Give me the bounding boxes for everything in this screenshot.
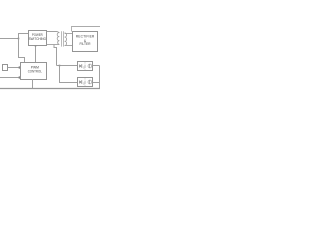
node A junction dot on input wire xyxy=(18,38,20,40)
photo transistor Q1 circle xyxy=(88,64,92,68)
wire branch up into power switching xyxy=(19,34,29,39)
LED diode D1 xyxy=(79,64,81,67)
block POWER SWITCHING xyxy=(29,31,47,46)
wire PWM bottom to return rail xyxy=(32,79,34,89)
wire sense box to PWM left xyxy=(8,67,21,69)
wire DC output from rectifier top to right edge xyxy=(72,27,101,32)
block line sense box xyxy=(3,65,8,71)
transformer T1 core xyxy=(61,31,63,46)
wire feedback to upper opto xyxy=(57,65,78,67)
wire bottom return rail xyxy=(0,88,100,90)
optocoupler U2 box xyxy=(78,62,93,71)
transformer T1 secondary winding xyxy=(65,33,67,46)
node junction dot on feedback wire xyxy=(59,65,61,67)
wire lower opto right to output bus xyxy=(93,82,100,84)
wire AC input xyxy=(0,38,19,40)
light arrows xyxy=(83,81,86,85)
transformer T1 primary winding xyxy=(57,33,59,45)
optical divider xyxy=(84,62,86,69)
node terminal tick on sense wire xyxy=(19,66,20,68)
wire branch from input down and over to PWM top xyxy=(19,39,25,63)
svg-text:FILTER: FILTER xyxy=(79,42,91,46)
photo transistor Q2 circle xyxy=(88,80,92,84)
wire transformer secondary top lead xyxy=(65,33,73,35)
optocoupler U3 box xyxy=(78,78,93,87)
wire aux feedback tap from primary bottom lead xyxy=(54,45,57,66)
optical divider xyxy=(84,78,86,85)
LED diode D3 xyxy=(79,80,81,83)
svg-text:CONTROL: CONTROL xyxy=(28,69,42,73)
wire upper opto right to output bus xyxy=(93,65,100,67)
wire transformer primary bottom lead xyxy=(47,44,60,46)
node junction dot at power switching bottom xyxy=(35,45,37,47)
block PWM CONTROL xyxy=(21,63,47,80)
block RECTIFIER & FILTER xyxy=(73,32,98,52)
wire right output bus vertical xyxy=(99,66,101,89)
wire transformer primary top lead xyxy=(47,32,60,33)
wire junction down to lower opto xyxy=(60,66,78,83)
wire power switching bottom to PWM control top xyxy=(35,46,37,63)
wire second input to PWM left lower xyxy=(0,77,21,79)
light arrows xyxy=(83,65,86,69)
background xyxy=(0,0,100,100)
node terminal tick on lower input wire xyxy=(19,76,20,78)
wire transformer secondary bottom lead xyxy=(65,45,73,47)
svg-text:SWITCHING: SWITCHING xyxy=(29,37,47,41)
